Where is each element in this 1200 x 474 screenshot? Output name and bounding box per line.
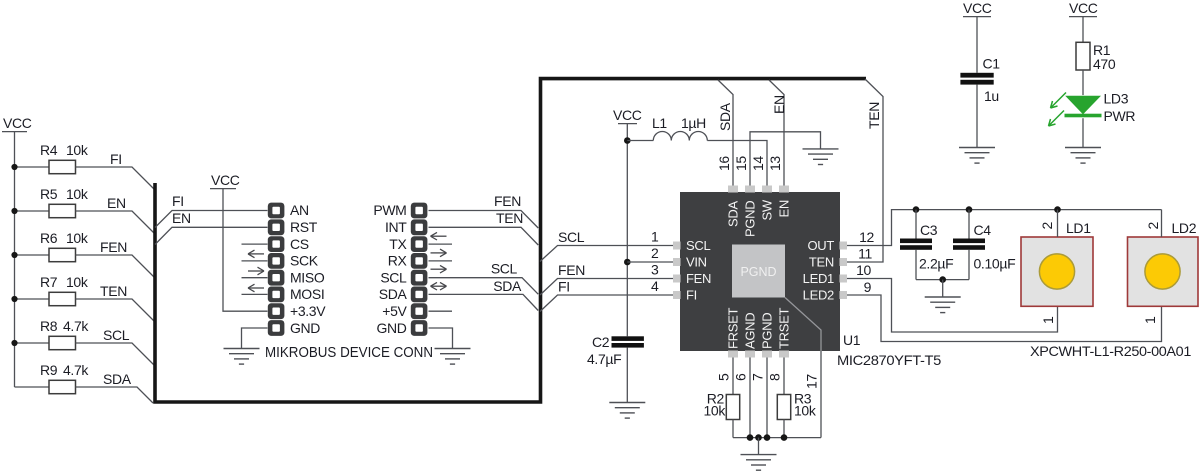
- wire net FI bus to pin 4: [540, 278, 674, 312]
- svg-text:GND: GND: [290, 320, 320, 336]
- svg-text:SCL: SCL: [103, 327, 130, 343]
- ground (R2/R3): [741, 455, 777, 471]
- wire C3/C4 junction rail: [916, 279, 969, 281]
- wire net SCL bus to pin 1: [540, 229, 674, 262]
- pin labels right header: [373, 202, 407, 336]
- junction pin7: [764, 434, 771, 441]
- pin labels left header: [290, 202, 326, 336]
- wire C1 to ground: [976, 85, 978, 148]
- LED LD3 PWR (green): [1049, 91, 1136, 127]
- resistor R1 470: [1076, 42, 1116, 72]
- svg-text:FI: FI: [558, 279, 570, 295]
- svg-text:10k: 10k: [66, 186, 89, 202]
- svg-text:SDA: SDA: [103, 371, 132, 387]
- svg-text:SDA: SDA: [726, 201, 741, 227]
- wire R8 to bus, net SCL: [76, 327, 156, 366]
- wire VIN pin 2: [627, 245, 674, 262]
- ground (pin 15 PGND): [803, 149, 839, 165]
- wire PGND pin 15 to ground: [750, 132, 821, 186]
- wire INT to bus, net TEN: [429, 210, 539, 245]
- svg-text:2: 2: [651, 245, 659, 261]
- capacitor C1 1u: [960, 17, 1000, 104]
- svg-text:MIC2870YFT-T5: MIC2870YFT-T5: [837, 352, 942, 368]
- junction R6: [11, 252, 17, 258]
- ground (C2): [609, 403, 645, 419]
- svg-text:14: 14: [750, 156, 766, 171]
- resistor R6: [40, 230, 89, 262]
- wire AGND pin 6: [733, 358, 751, 438]
- ground (C3/C4): [925, 297, 961, 313]
- arrow right (SCK/MISO): [248, 267, 264, 275]
- junction LD1 top: [1054, 206, 1061, 213]
- wire L1 to SW pin 14: [707, 141, 767, 187]
- svg-text:1: 1: [1040, 316, 1056, 324]
- capacitor C4 0.10uF: [953, 210, 1015, 280]
- svg-text:7: 7: [750, 373, 766, 381]
- LED LD1 package: [1021, 220, 1093, 324]
- wire R5 to bus, net EN: [76, 195, 156, 234]
- wire SCK stub: [242, 260, 268, 262]
- svg-text:EN: EN: [172, 210, 191, 226]
- svg-text:1u: 1u: [984, 88, 999, 104]
- svg-text:TEN: TEN: [100, 283, 127, 299]
- wire R6 to bus, net FEN: [76, 239, 156, 278]
- wire to ground stem: [758, 438, 760, 455]
- svg-text:FEN: FEN: [100, 239, 127, 255]
- power flag VCC (mikrobus): [210, 172, 240, 189]
- svg-text:10k: 10k: [66, 274, 89, 290]
- wire GND pin to ground: [242, 328, 268, 349]
- resistor R3 10k: [777, 391, 817, 420]
- svg-text:C3: C3: [920, 222, 938, 238]
- wire PWM to bus, net FEN: [429, 193, 539, 228]
- wire LD1 pin2 stub: [1057, 210, 1059, 237]
- arrow left (MISO/MOSI): [248, 284, 264, 292]
- wire MISO stub: [242, 277, 268, 279]
- svg-text:9: 9: [864, 279, 872, 295]
- wire R4 row: [15, 166, 50, 168]
- junction pin6: [747, 434, 754, 441]
- svg-text:FRSET: FRSET: [726, 308, 741, 349]
- svg-text:+3.3V: +3.3V: [290, 303, 326, 319]
- svg-text:12: 12: [859, 229, 874, 245]
- junction R4: [11, 164, 17, 170]
- svg-text:SCL: SCL: [491, 261, 518, 277]
- connector P1 left header (mikroBUS): [268, 203, 285, 336]
- svg-text:8: 8: [767, 373, 783, 381]
- svg-text:2.2µF: 2.2µF: [919, 256, 953, 272]
- svg-text:PWR: PWR: [1104, 108, 1136, 124]
- wire LD3 to ground: [1082, 118, 1084, 147]
- wire OUT pin 12 to LED rail: [847, 210, 1162, 246]
- svg-text:4: 4: [651, 278, 659, 294]
- U1 right pin numbers 12 11 10 9: [856, 229, 874, 295]
- wire TRSET pin 8: [767, 358, 785, 395]
- svg-text:EN: EN: [777, 200, 792, 217]
- arrow right (TX/RX): [431, 249, 447, 257]
- svg-text:RST: RST: [290, 219, 318, 235]
- svg-text:6: 6: [733, 373, 749, 381]
- svg-text:VCC: VCC: [963, 0, 992, 16]
- svg-text:R5: R5: [40, 186, 58, 202]
- svg-text:FI: FI: [172, 193, 184, 209]
- svg-text:MIKROBUS DEVICE CONN: MIKROBUS DEVICE CONN: [265, 345, 433, 361]
- wire R7 row: [15, 298, 50, 300]
- svg-text:OUT: OUT: [807, 238, 834, 253]
- ground (C1): [959, 148, 995, 164]
- svg-text:TX: TX: [389, 236, 407, 252]
- wire R6 row: [15, 254, 50, 256]
- wire junction to ground: [942, 280, 944, 297]
- svg-text:VCC: VCC: [211, 172, 240, 188]
- wire R9 to bus, net SDA: [76, 371, 154, 403]
- wire R4 to bus, net FI: [76, 151, 156, 190]
- svg-text:R4: R4: [40, 142, 58, 158]
- ground (mikrobus left): [224, 349, 260, 365]
- svg-text:10k: 10k: [66, 142, 89, 158]
- svg-text:TRSET: TRSET: [777, 308, 792, 349]
- svg-text:1µH: 1µH: [681, 115, 706, 131]
- connector P2 right header (mikroBUS): [411, 203, 428, 336]
- svg-text:10k: 10k: [703, 403, 726, 419]
- svg-text:R8: R8: [40, 318, 58, 334]
- svg-text:10k: 10k: [794, 403, 817, 419]
- svg-text:MOSI: MOSI: [290, 286, 324, 302]
- svg-text:1: 1: [1142, 316, 1158, 324]
- wire R1 to LD3: [1082, 70, 1084, 95]
- U1 thermal pad PGND: [732, 245, 785, 298]
- junction pin8: [781, 434, 788, 441]
- svg-text:MISO: MISO: [290, 270, 325, 286]
- wire net TEN bus to pin 11: [847, 79, 883, 262]
- resistor R4: [40, 142, 89, 174]
- svg-text:13: 13: [767, 156, 783, 171]
- svg-text:SCK: SCK: [290, 253, 319, 269]
- svg-text:LD3: LD3: [1104, 91, 1129, 107]
- power flag VCC (R1): [1069, 0, 1098, 17]
- wire R3 to junction: [783, 420, 785, 438]
- svg-text:VCC: VCC: [613, 107, 642, 123]
- wire pad to pin 17 (inside body): [785, 298, 821, 352]
- junction VCC/L1: [624, 137, 631, 144]
- svg-text:2: 2: [1145, 222, 1161, 230]
- LED LD2 package: [1128, 220, 1199, 324]
- svg-text:4.7k: 4.7k: [63, 362, 89, 378]
- wire VCC to +3.3V pin: [223, 189, 268, 312]
- resistor R2 10k: [703, 391, 739, 420]
- svg-text:16: 16: [716, 156, 732, 171]
- svg-text:SW: SW: [760, 199, 775, 220]
- svg-text:R6: R6: [40, 230, 58, 246]
- svg-text:L1: L1: [652, 115, 667, 131]
- wire SCL to bus, net SCL: [429, 261, 539, 295]
- svg-text:PWM: PWM: [373, 202, 406, 218]
- ground (LD3): [1065, 148, 1101, 164]
- svg-text:FI: FI: [686, 288, 697, 303]
- svg-text:FEN: FEN: [494, 193, 521, 209]
- svg-text:FEN: FEN: [686, 271, 711, 286]
- svg-text:2: 2: [1039, 222, 1055, 230]
- svg-text:5: 5: [716, 373, 732, 381]
- svg-text:SDA: SDA: [493, 278, 522, 294]
- svg-text:TEN: TEN: [866, 102, 882, 129]
- svg-text:RX: RX: [388, 253, 408, 269]
- svg-text:PGND: PGND: [740, 265, 776, 279]
- svg-text:LD2: LD2: [1172, 220, 1197, 236]
- wire C2 to ground: [626, 348, 628, 403]
- wire pad pin 17: [804, 351, 822, 438]
- wire GND pin to ground: [429, 328, 453, 349]
- svg-text:VIN: VIN: [686, 255, 707, 270]
- wire VCC to R1: [1082, 17, 1084, 43]
- arrow left (INT/TX): [431, 232, 447, 240]
- svg-text:C4: C4: [974, 222, 992, 238]
- wire bottom junction rail: [733, 437, 821, 439]
- svg-text:FEN: FEN: [558, 262, 585, 278]
- svg-text:AGND: AGND: [743, 313, 758, 349]
- svg-text:LD1: LD1: [1066, 220, 1091, 236]
- svg-text:11: 11: [858, 246, 872, 262]
- svg-text:VCC: VCC: [1069, 0, 1098, 16]
- junction C3 top: [913, 206, 920, 213]
- wire PGND pin 7: [750, 358, 768, 438]
- svg-text:LED2: LED2: [803, 288, 834, 303]
- svg-text:CS: CS: [290, 236, 309, 252]
- svg-text:17: 17: [804, 374, 820, 389]
- wire net FEN bus to pin 3: [540, 262, 674, 296]
- svg-text:R9: R9: [40, 362, 58, 378]
- svg-text:+5V: +5V: [382, 303, 407, 319]
- svg-text:10k: 10k: [66, 230, 89, 246]
- svg-text:C1: C1: [983, 56, 1001, 72]
- wire VCC rail vertical left: [14, 132, 16, 387]
- U1 top pin numbers 16 15 14 13: [716, 156, 783, 171]
- bus (thick net bundle): [155, 79, 866, 402]
- svg-text:SDA: SDA: [379, 286, 408, 302]
- svg-text:R7: R7: [40, 274, 58, 290]
- svg-text:10: 10: [856, 262, 871, 278]
- wire RX stub: [429, 260, 453, 262]
- wire +5V stub: [429, 310, 453, 312]
- U1 pin name labels: [686, 199, 834, 349]
- svg-text:C2: C2: [592, 334, 610, 350]
- svg-text:XPCWHT-L1-R250-00A01: XPCWHT-L1-R250-00A01: [1030, 343, 1192, 359]
- svg-text:EN: EN: [107, 195, 126, 211]
- power flag VCC (mid): [613, 107, 642, 124]
- svg-text:470: 470: [1093, 56, 1116, 72]
- svg-text:FI: FI: [110, 151, 122, 167]
- wire R8 row: [15, 342, 50, 344]
- ground (mikrobus right): [435, 349, 471, 365]
- svg-text:TEN: TEN: [496, 210, 523, 226]
- svg-text:TEN: TEN: [809, 255, 834, 270]
- svg-text:PGND: PGND: [743, 201, 758, 237]
- junction R8: [11, 340, 17, 346]
- svg-text:GND: GND: [376, 320, 406, 336]
- wire LED2 pin 9 to LD2: [847, 295, 1162, 342]
- wire LD2 pin2 stub: [1161, 210, 1163, 237]
- wire R5 row: [15, 210, 50, 212]
- arrow right (RX/SCL): [431, 265, 447, 273]
- svg-text:LED1: LED1: [803, 271, 834, 286]
- wire LED1 pin 10 to LD1: [847, 279, 1058, 333]
- svg-text:15: 15: [733, 156, 749, 171]
- svg-text:U1: U1: [843, 332, 861, 348]
- resistor R8: [40, 318, 89, 350]
- svg-text:SDA: SDA: [717, 102, 733, 131]
- op-amp U1 MIC2870YFT-T5 body: [673, 186, 847, 358]
- junction R5: [11, 208, 17, 214]
- power flag VCC (top-left): [2, 115, 32, 132]
- wire CS stub: [242, 243, 268, 245]
- junction VIN tap: [624, 259, 631, 266]
- wire R7 to bus, net TEN: [76, 283, 156, 322]
- capacitor C2 4.7uF: [587, 334, 644, 367]
- junction C4 top: [966, 206, 973, 213]
- resistor R9: [40, 362, 89, 394]
- wire TX stub: [429, 243, 453, 245]
- wire net SDA bus to pin 16: [717, 80, 733, 186]
- resistor R5: [40, 186, 89, 218]
- svg-text:INT: INT: [385, 219, 407, 235]
- wire R9 row: [15, 386, 50, 388]
- svg-text:0.10µF: 0.10µF: [974, 256, 1016, 272]
- wire net FI bus to AN: [155, 193, 268, 228]
- junction R7: [11, 296, 17, 302]
- svg-text:4.7k: 4.7k: [63, 318, 89, 334]
- wire MOSI stub: [242, 293, 268, 295]
- arrow both (SCL/SDA): [431, 282, 447, 290]
- svg-text:AN: AN: [290, 202, 309, 218]
- inductor L1 1uH: [627, 115, 707, 141]
- wire net EN bus to pin 13: [769, 80, 787, 186]
- svg-text:SCL: SCL: [380, 270, 407, 286]
- wire net EN bus to RST: [155, 210, 268, 245]
- svg-text:PGND: PGND: [760, 313, 775, 349]
- svg-text:SCL: SCL: [558, 229, 585, 245]
- svg-text:4.7µF: 4.7µF: [587, 351, 621, 367]
- junction C3/C4: [939, 276, 946, 283]
- svg-text:VCC: VCC: [3, 115, 32, 131]
- junction gnd stem: [755, 434, 762, 441]
- svg-text:1: 1: [651, 229, 659, 245]
- wire SDA to bus, net SDA: [429, 278, 539, 311]
- wire R2 to junction: [732, 420, 734, 438]
- wire FRSET pin 5: [716, 358, 734, 395]
- power flag VCC (C1): [963, 0, 992, 17]
- arrow left (CS/SCK): [248, 250, 264, 258]
- wire VCC flag to rail: [626, 124, 628, 337]
- resistor R7: [40, 274, 89, 306]
- svg-text:EN: EN: [771, 95, 787, 114]
- capacitor C3 2.2uF: [900, 210, 953, 280]
- svg-text:3: 3: [651, 262, 659, 278]
- svg-text:SCL: SCL: [686, 238, 710, 253]
